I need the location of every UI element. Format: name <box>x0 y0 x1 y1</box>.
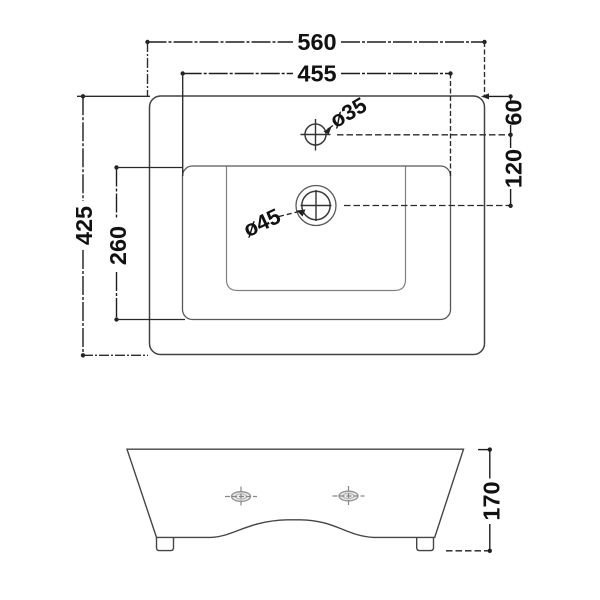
faucet centerline to dimension <box>337 134 511 136</box>
svg-text:60: 60 <box>501 99 527 125</box>
elevation right foot <box>417 537 434 550</box>
dimension 60 top tick with arrow <box>483 95 511 97</box>
svg-text:560: 560 <box>297 29 336 55</box>
dimension 120 line <box>510 135 512 148</box>
svg-text:260: 260 <box>105 226 131 265</box>
dimension 170 bottom tick <box>446 550 490 552</box>
drain hole inner circle <box>302 191 330 219</box>
basin inner rim (top view) <box>183 166 451 320</box>
drain hole outer circle <box>296 186 336 226</box>
faucet hole crosshair <box>301 119 331 151</box>
dimension 560 line <box>148 41 294 43</box>
svg-text:425: 425 <box>71 206 97 245</box>
svg-text:170: 170 <box>479 481 505 520</box>
dimension 170 top tick <box>478 449 492 451</box>
elevation left foot <box>157 537 174 550</box>
dimension 60 line <box>510 96 512 101</box>
leader dia45 <box>279 212 299 217</box>
drain centerline to dimension <box>344 205 511 207</box>
dimension 455 extension lines <box>182 74 184 177</box>
elevation body outline <box>127 449 464 537</box>
svg-text:120: 120 <box>501 149 527 188</box>
dimension 455 line <box>183 73 293 75</box>
dimension 170 line <box>489 450 491 479</box>
leader dia35 <box>328 126 334 130</box>
dimension 425 tick lines <box>77 95 150 97</box>
faucet hole circle <box>305 124 326 145</box>
elevation hole mark left <box>225 487 257 507</box>
elevation hole mark right <box>333 486 365 506</box>
svg-text:455: 455 <box>297 61 336 87</box>
dimension 260 tick lines <box>117 167 183 169</box>
dimension 260 line <box>116 168 118 220</box>
bowl outline <box>227 167 406 291</box>
drain hole crosshair <box>301 190 332 221</box>
dimension 425 line <box>82 96 84 201</box>
basin outer rim (top view) <box>150 96 485 355</box>
dimension 560 extension lines <box>147 42 149 96</box>
